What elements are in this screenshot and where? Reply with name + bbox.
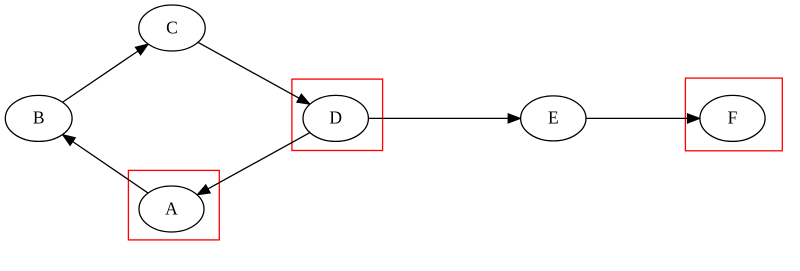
svg-text:D: D <box>329 108 342 128</box>
cluster box around A <box>128 170 219 240</box>
arrowhead C to D <box>297 94 310 104</box>
node C <box>139 5 205 51</box>
cluster box around D <box>292 79 383 150</box>
wire edge A to B <box>73 142 148 193</box>
svg-text:F: F <box>728 108 738 128</box>
node D <box>303 95 368 141</box>
node F <box>700 95 765 141</box>
svg-text:B: B <box>33 108 45 128</box>
arrowhead E to F <box>687 114 700 123</box>
svg-text:E: E <box>548 108 559 128</box>
arrowhead B to C <box>135 44 148 55</box>
node A <box>139 186 204 232</box>
wire edge D to E <box>368 117 508 119</box>
cluster box around F <box>685 78 782 151</box>
node E <box>521 96 586 141</box>
node B <box>5 95 72 141</box>
wire edge D to A <box>208 133 310 189</box>
wire edge E to F <box>586 117 687 119</box>
arrowhead D to A <box>197 185 210 195</box>
arrowhead D to E <box>508 114 520 123</box>
wire edge B to C <box>63 51 138 102</box>
wire edge C to D <box>198 42 299 98</box>
svg-text:A: A <box>165 198 178 218</box>
svg-text:C: C <box>166 17 178 37</box>
arrowhead A to B <box>62 135 75 146</box>
